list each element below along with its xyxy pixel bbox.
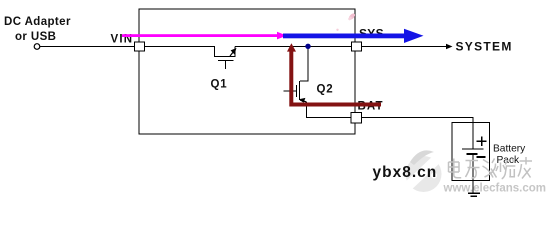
ground xyxy=(468,192,480,194)
wire SYS node down to Q2 drain xyxy=(300,47,308,82)
wire Q1 to SYS pin xyxy=(235,46,352,48)
pin SYS xyxy=(352,42,362,51)
svg-text:SYSTEM: SYSTEM xyxy=(456,40,513,54)
svg-text:Q1: Q1 xyxy=(211,79,228,91)
svg-text:or USB: or USB xyxy=(15,31,56,43)
transistor Q2 xyxy=(299,81,301,100)
power flow arrow: system (blue) xyxy=(283,34,404,39)
plus symbol xyxy=(477,140,487,142)
IC outline U1 xyxy=(139,9,355,134)
svg-text:www.elecfans.com: www.elecfans.com xyxy=(443,183,546,195)
transistor Q1 xyxy=(215,47,236,57)
battery pack box xyxy=(452,123,490,181)
pin BAT xyxy=(351,113,362,124)
junction dot (navy) xyxy=(305,44,310,49)
wire VIN pin to Q1 xyxy=(145,46,216,48)
minus symbol xyxy=(476,156,485,158)
artifact pink mark xyxy=(348,12,356,20)
power flow arrow: adapter input (magenta) xyxy=(122,34,278,37)
watermark chinese text: 电子发烧友 xyxy=(449,157,533,179)
wire BAT pin to battery xyxy=(362,118,474,124)
svg-text:ybx8.cn: ybx8.cn xyxy=(373,164,438,181)
battery cell B1 xyxy=(472,123,474,149)
wire SYS pin to SYSTEM xyxy=(362,46,452,48)
wire Q2 source to BAT pin xyxy=(307,102,352,118)
battery discharge path (dark red) xyxy=(291,50,381,105)
watermark logo xyxy=(403,150,442,192)
wire input to VIN xyxy=(40,46,135,48)
input terminal (DC adapter) xyxy=(34,44,40,50)
svg-text:Q2: Q2 xyxy=(317,84,334,96)
svg-text:Battery: Battery xyxy=(493,143,526,154)
wire battery to ground xyxy=(472,181,474,193)
svg-text:DC Adapter: DC Adapter xyxy=(4,16,71,28)
pin VIN xyxy=(135,42,145,51)
